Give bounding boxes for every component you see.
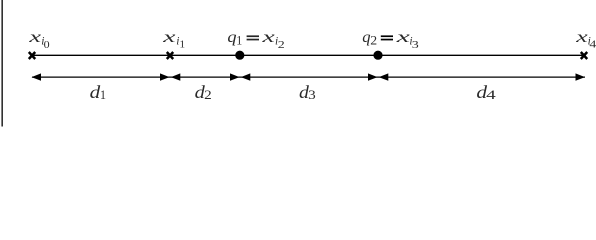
left figure border line (2, 0, 3, 127)
wire: distance arrow line d3 (240, 76, 378, 78)
svg-text:0: 0 (44, 39, 51, 51)
svg-text:2: 2 (278, 39, 285, 51)
svg-text:x: x (575, 29, 588, 46)
arrowhead d2 right (230, 73, 240, 80)
arrowhead d2 left (171, 73, 181, 80)
node x_i0 cross marker (29, 52, 35, 59)
arrowhead d3 left (241, 73, 251, 80)
wire: distance arrow line d2 (170, 76, 240, 78)
arrowhead d4 right (576, 73, 586, 80)
wire: main number line (32, 54, 584, 56)
svg-text:x: x (395, 29, 410, 46)
svg-text:1: 1 (100, 87, 106, 102)
svg-text:4: 4 (486, 87, 496, 102)
svg-text:3: 3 (412, 39, 420, 51)
svg-text:2: 2 (370, 33, 377, 48)
node x_i4 cross marker (581, 52, 587, 59)
svg-text:1: 1 (179, 39, 185, 51)
svg-text:x: x (162, 29, 176, 46)
svg-text:2: 2 (204, 87, 212, 102)
node q1 bullet (235, 51, 244, 60)
arrowhead d4 left (379, 73, 389, 80)
svg-text:d: d (90, 82, 101, 102)
svg-text:1: 1 (236, 33, 242, 48)
svg-text:x: x (28, 29, 41, 46)
arrowhead d1 right (160, 73, 170, 80)
node q2 bullet (373, 51, 382, 60)
svg-text:3: 3 (308, 87, 316, 102)
node x_i1 cross marker (167, 52, 173, 59)
arrowhead d3 right (368, 73, 378, 80)
svg-text:4: 4 (589, 38, 596, 50)
arrowhead d1 left (32, 73, 42, 80)
svg-text:x: x (261, 29, 275, 46)
wire: distance arrow line d1 (32, 76, 170, 78)
wire: distance arrow line d4 (378, 76, 585, 78)
